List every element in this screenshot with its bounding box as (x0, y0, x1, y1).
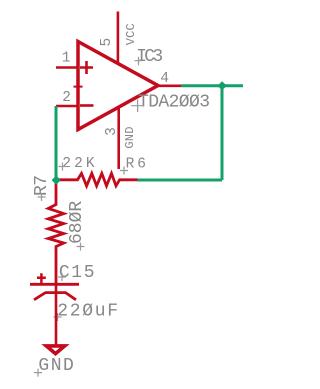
junction dot inverting node (52, 176, 61, 185)
resistor R6 (56, 173, 138, 186)
capacitor C15 curved bottom plate (34, 293, 76, 300)
C15 text origin cross (58, 273, 66, 281)
svg-text:GND: GND (38, 356, 75, 376)
svg-text:1: 1 (62, 50, 71, 66)
svg-text:2: 2 (62, 90, 71, 106)
svg-text:22ØuF: 22ØuF (57, 302, 120, 322)
resistor R7 (48, 180, 64, 284)
svg-text:3: 3 (104, 127, 120, 136)
junction dot output node (218, 81, 227, 90)
svg-text:5: 5 (99, 38, 115, 47)
ground symbol (46, 346, 64, 354)
wire feedback bottom to R6 (138, 179, 223, 182)
680R text origin cross (77, 243, 85, 251)
svg-text:VCC: VCC (124, 23, 138, 45)
svg-text:68ØR: 68ØR (67, 201, 87, 244)
TDA2003 text origin cross (131, 99, 144, 112)
capacitor C15 top plate (30, 283, 79, 286)
R6 text origin cross (120, 167, 128, 175)
svg-text:GND: GND (123, 126, 137, 148)
svg-text:TDA2ØØ3: TDA2ØØ3 (138, 92, 209, 112)
wire pin 2 down to junction (55, 106, 58, 180)
wire output net from pin 4 (181, 84, 243, 87)
R7 text origin cross (38, 193, 46, 201)
pin 4 (158, 85, 181, 88)
GND text origin cross (34, 369, 42, 377)
pin 2 (56, 105, 78, 108)
svg-text:R6: R6 (126, 157, 149, 173)
22K text origin cross (59, 163, 67, 171)
IC3 text origin cross (135, 57, 143, 65)
svg-text:IC3: IC3 (136, 47, 162, 67)
pin 3 (117, 108, 120, 170)
wire output net down right side (221, 86, 224, 180)
op-amp IC3 body (78, 42, 158, 130)
pin 5 (117, 12, 120, 64)
op-amp inverting input - marker (80, 104, 94, 107)
svg-text:4: 4 (160, 71, 169, 87)
svg-text:C15: C15 (59, 263, 96, 283)
capacitor C15 plus marker (37, 273, 46, 284)
pin 1 (56, 66, 78, 69)
220uF text origin cross (54, 313, 62, 321)
svg-text:22K: 22K (62, 156, 97, 172)
wire C15 to ground (55, 284, 58, 346)
op-amp non-inverting input + marker (80, 61, 93, 74)
svg-text:R7: R7 (32, 176, 52, 196)
op-amp origin cross (74, 82, 83, 91)
